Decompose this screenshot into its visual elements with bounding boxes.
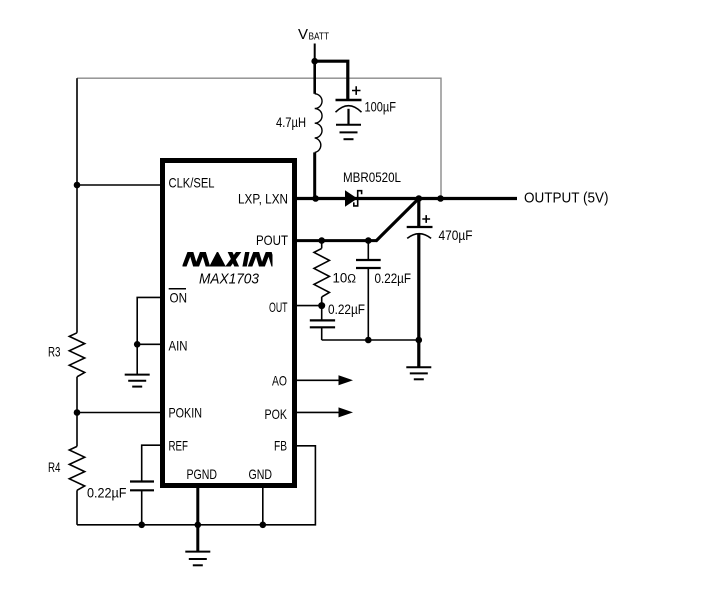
svg-text:0.22µF: 0.22µF: [375, 270, 412, 286]
svg-text:FB: FB: [274, 438, 287, 454]
svg-text:0.22µF: 0.22µF: [87, 485, 127, 501]
svg-text:POKIN: POKIN: [169, 405, 203, 421]
svg-text:AO: AO: [272, 373, 287, 389]
svg-text:CLK/SEL: CLK/SEL: [169, 175, 215, 191]
svg-text:4.7µH: 4.7µH: [276, 114, 306, 130]
svg-text:LXP, LXN: LXP, LXN: [238, 190, 288, 206]
svg-text:100µF: 100µF: [365, 99, 397, 115]
svg-text:AIN: AIN: [169, 338, 188, 354]
svg-text:OUTPUT (5V): OUTPUT (5V): [524, 189, 609, 206]
svg-text:ON: ON: [170, 290, 188, 306]
svg-text:V: V: [298, 26, 308, 43]
svg-text:POUT: POUT: [256, 232, 288, 248]
svg-text:GND: GND: [249, 466, 273, 482]
svg-text:REF: REF: [169, 438, 189, 454]
svg-text:MAX1703: MAX1703: [199, 271, 260, 288]
svg-text:MBR0520L: MBR0520L: [343, 170, 401, 185]
svg-text:R4: R4: [48, 459, 61, 475]
svg-text:470µF: 470µF: [439, 227, 473, 243]
svg-text:BATT: BATT: [309, 31, 330, 43]
svg-text:POK: POK: [265, 406, 288, 422]
svg-text:R3: R3: [48, 344, 61, 360]
svg-text:10Ω: 10Ω: [333, 269, 357, 285]
svg-text:0.22µF: 0.22µF: [328, 301, 365, 317]
svg-text:OUT: OUT: [269, 299, 288, 315]
svg-text:PGND: PGND: [187, 466, 218, 482]
